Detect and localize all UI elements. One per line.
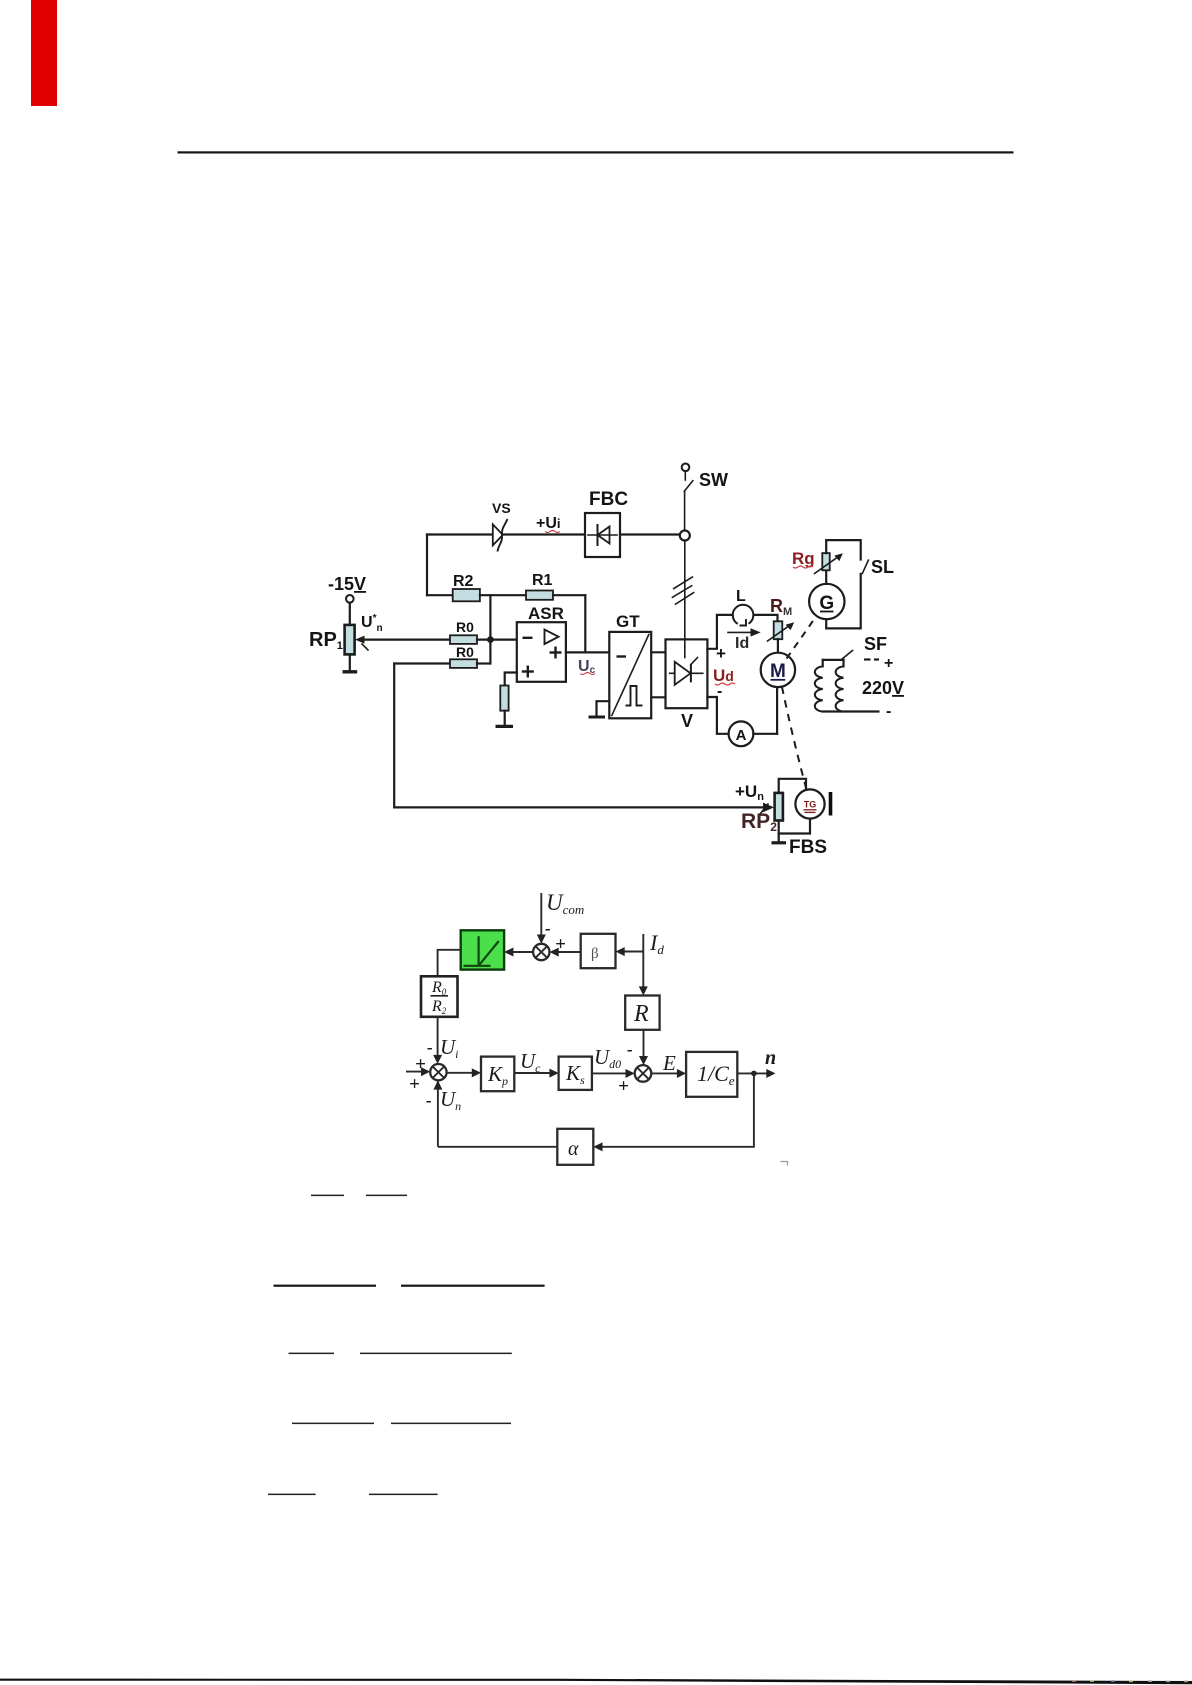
svg-text:Rg: Rg	[792, 549, 815, 568]
bottom right colored specks	[1072, 1680, 1076, 1682]
SF contact dashes	[864, 658, 871, 660]
svg-text:R: R	[633, 1001, 649, 1027]
svg-text:R1: R1	[532, 572, 553, 589]
rheostat RM	[774, 621, 783, 639]
wire GT-V bottom	[651, 696, 665, 698]
wire R0 upper to junction	[477, 638, 517, 640]
wire A to M leg	[753, 733, 777, 735]
GT pulse symbol	[626, 686, 643, 706]
potentiometer RP2	[775, 793, 783, 821]
wire -15V to RP1	[349, 603, 351, 625]
svg-text:+Ui: +Ui	[536, 515, 561, 532]
wire L to RM	[754, 615, 778, 621]
arrow S1 to limiter	[509, 951, 534, 953]
dashed shaft M to G	[787, 616, 817, 659]
junction dot	[487, 636, 494, 643]
wire R2-R1	[480, 594, 526, 596]
wire R0R2 down to S3	[437, 1017, 439, 1061]
ammeter A circle	[729, 721, 754, 746]
wire limiter to R0R2 box	[438, 950, 461, 977]
SL field loop	[826, 540, 861, 559]
fraction bar row2 seg1	[274, 1285, 377, 1287]
output wire n	[737, 1072, 771, 1074]
svg-text:VS: VS	[492, 500, 511, 516]
generator G circle	[809, 584, 844, 619]
svg-text:220V: 220V	[862, 678, 904, 698]
svg-text:U*n: U*n	[361, 613, 383, 634]
svg-text:Un: Un	[440, 1087, 461, 1113]
svg-text:FBC: FBC	[589, 489, 628, 510]
svg-text:V: V	[681, 711, 693, 731]
block 1/Ce	[686, 1052, 737, 1097]
wire node down to V	[684, 541, 686, 640]
wire Id to beta	[620, 951, 644, 953]
svg-text:+: +	[884, 655, 893, 672]
terminal -15V circle	[346, 595, 354, 603]
feedback vertical wire left	[393, 664, 395, 808]
wire lower R0 right	[477, 662, 490, 664]
wire ASR plus input	[505, 673, 517, 686]
wire RM to M	[777, 639, 779, 652]
svg-text:+: +	[415, 1054, 426, 1075]
ground RP1	[343, 670, 358, 673]
svg-text:GT: GT	[616, 612, 640, 631]
zener diode VS	[493, 524, 503, 545]
fraction bar row4 seg1	[292, 1423, 374, 1425]
svg-text:n: n	[765, 1047, 776, 1069]
SF winding top wire	[823, 659, 844, 661]
wire lower R0 left	[394, 662, 450, 664]
resistor R0 upper	[450, 635, 477, 644]
wire R2R1 line	[427, 594, 453, 596]
wire V out bottom	[707, 697, 728, 734]
ASR plus lower-left	[522, 670, 534, 672]
svg-text:M: M	[770, 661, 786, 682]
block R	[625, 996, 659, 1030]
svg-text:Id: Id	[649, 930, 664, 957]
feedback wire down	[598, 1073, 754, 1146]
wire R1 down leg	[584, 595, 586, 652]
block beta	[581, 934, 616, 968]
switch SW blade	[684, 481, 693, 492]
red sidebar mark	[31, 0, 57, 106]
svg-text:-15V: -15V	[328, 574, 366, 594]
RP2 top wire to TG	[779, 779, 806, 793]
wire RP1 bottom to ground	[349, 654, 351, 671]
svg-text:RM: RM	[770, 596, 792, 618]
TG bottom wire	[779, 819, 810, 834]
svg-text:RP1: RP1	[309, 629, 343, 652]
svg-text:-: -	[545, 919, 551, 938]
arrow Ks to S2	[592, 1072, 631, 1074]
resistor ASR ground leg	[500, 686, 508, 711]
node circle	[680, 531, 690, 541]
wire R1 right	[553, 594, 585, 596]
wire Un up into S3	[437, 1080, 439, 1146]
svg-text:Ui: Ui	[440, 1035, 459, 1061]
junction dot output	[751, 1071, 757, 1077]
wire ASR output	[566, 651, 609, 653]
svg-text:SW: SW	[699, 470, 728, 490]
svg-text:Id: Id	[735, 635, 749, 652]
tacho TG circle	[795, 789, 824, 818]
svg-text:SL: SL	[871, 557, 894, 577]
wiper arrow into RP1	[360, 638, 450, 640]
block alpha	[557, 1129, 593, 1165]
wire Id down to R	[642, 934, 644, 992]
GT diagonal	[612, 635, 649, 716]
svg-text:RP2: RP2	[741, 810, 777, 834]
ASR triangle	[545, 630, 559, 645]
summing node S3	[430, 1064, 446, 1080]
feedback bottom long wire	[394, 806, 766, 808]
summing node S1	[533, 944, 549, 960]
svg-text:+: +	[409, 1074, 420, 1095]
wire FBC to node	[620, 533, 685, 535]
switch SL blade	[862, 560, 868, 573]
ground ASR	[496, 725, 514, 728]
block Kp	[481, 1057, 514, 1092]
resistor R0 lower	[450, 659, 477, 668]
svg-text:R0: R0	[456, 619, 474, 635]
svg-text:FBS: FBS	[789, 837, 827, 858]
svg-text:Ud0: Ud0	[594, 1045, 621, 1071]
fraction bar row5 seg1	[268, 1494, 316, 1496]
fraction bar row2 seg2	[401, 1285, 545, 1287]
svg-text:Uc: Uc	[520, 1049, 541, 1075]
ASR minus	[523, 637, 533, 639]
arrow beta to S1	[554, 951, 581, 953]
svg-text:SF: SF	[864, 634, 887, 654]
box V thyristor	[666, 639, 708, 708]
svg-text:-: -	[627, 1040, 633, 1059]
break slashes	[674, 577, 693, 589]
thyristor symbol	[670, 672, 703, 674]
feedback wire to S3	[438, 1146, 557, 1148]
potentiometer RP1	[345, 625, 355, 655]
transformer coil left	[815, 666, 823, 711]
gain block R0/R2	[421, 976, 458, 1017]
wire junction vertical	[489, 595, 491, 663]
fraction bar row3 seg1	[289, 1353, 334, 1355]
svg-text:E: E	[662, 1051, 676, 1075]
motor M circle	[761, 653, 795, 687]
GT minus	[617, 655, 627, 657]
arrow Id	[728, 631, 755, 633]
GT ground step	[597, 701, 610, 716]
summing node S2	[635, 1065, 652, 1082]
fraction bar row5 seg2	[369, 1494, 438, 1496]
input arrow into S3	[406, 1071, 426, 1073]
box GT	[609, 632, 651, 718]
svg-text:+Un: +Un	[735, 782, 764, 803]
fraction bar row3 seg2	[360, 1353, 512, 1355]
ASR plus right	[550, 651, 562, 653]
wire top to VS	[427, 533, 585, 535]
svg-text:R0: R0	[456, 644, 474, 660]
resistor R1	[526, 591, 553, 600]
svg-text:-: -	[886, 703, 891, 720]
wire V out top	[707, 615, 732, 649]
rheostat Rg	[822, 553, 829, 570]
wire M bottom to A line	[776, 687, 778, 734]
resistor R2	[453, 589, 480, 601]
arrow Kp to Ks	[514, 1072, 554, 1074]
svg-text:β: β	[591, 946, 599, 962]
svg-text:TG: TG	[804, 800, 817, 810]
wire G top to Rg	[825, 570, 827, 584]
wire Ucom down	[540, 893, 542, 941]
inductor L	[733, 605, 754, 624]
SL loop lower	[826, 574, 861, 629]
wire R down to S2	[643, 1030, 645, 1062]
transformer coil right	[836, 666, 844, 711]
op-amp ASR box	[517, 622, 566, 682]
svg-text:R2: R2	[453, 573, 474, 590]
svg-text:A: A	[736, 727, 747, 744]
fraction bar row1 seg2	[366, 1195, 407, 1197]
top horizontal rule	[178, 151, 1014, 153]
wire SW down to node	[684, 491, 686, 530]
SF switch blade	[841, 651, 853, 660]
svg-text:α: α	[568, 1138, 579, 1160]
FBC internal symbol	[588, 534, 617, 536]
svg-text:-: -	[426, 1091, 432, 1110]
dashed shaft M to TG	[782, 687, 806, 789]
RP2 bottom to ground	[778, 821, 780, 843]
switch SW terminal	[682, 464, 690, 472]
wire GT-V top	[651, 651, 665, 653]
brush bar	[829, 792, 833, 816]
fraction bar row4 seg2	[391, 1423, 511, 1425]
fraction bar row1 seg1	[311, 1195, 344, 1197]
svg-text:-: -	[427, 1038, 433, 1057]
wire left tall vertical VS-R2	[426, 535, 428, 596]
box FBC	[585, 513, 620, 557]
limiter block (green)	[461, 930, 504, 969]
bottom rule	[0, 1679, 1192, 1685]
svg-text:+: +	[618, 1076, 629, 1097]
small artifact mark	[781, 1162, 788, 1166]
svg-text:L: L	[736, 588, 746, 605]
svg-text:ASR: ASR	[528, 604, 564, 623]
block Ks	[559, 1057, 592, 1090]
arrow S2 to Ce	[651, 1072, 682, 1074]
SF bottom wire	[823, 710, 879, 712]
svg-text:Ucom: Ucom	[546, 890, 584, 917]
arrow S3 to Kp	[447, 1072, 477, 1074]
wire resistor to ground	[504, 711, 506, 726]
